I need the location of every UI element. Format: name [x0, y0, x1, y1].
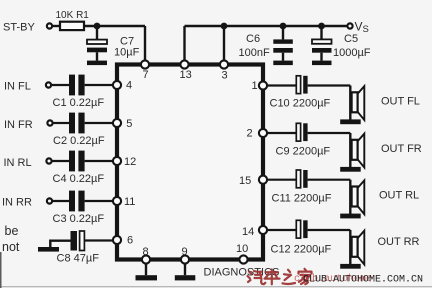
svg-text:not: not	[2, 240, 20, 254]
resistor R1	[56, 10, 90, 30]
ground (pin 8)	[136, 275, 158, 280]
svg-text:14: 14	[242, 226, 254, 238]
wire	[144, 26, 146, 65]
svg-text:12: 12	[124, 156, 136, 168]
svg-text:C6: C6	[246, 33, 260, 45]
wire pin 8 ground stub	[145, 264, 147, 275]
svg-text:OUT FL: OUT FL	[381, 96, 420, 108]
svg-text:OUT RR: OUT RR	[378, 236, 420, 248]
pin 6	[113, 235, 133, 247]
svg-text:13: 13	[180, 69, 192, 81]
ground (C7)	[87, 61, 107, 66]
wire Vs rail	[224, 25, 347, 27]
capacitor C1	[53, 75, 105, 109]
pin 1	[252, 80, 268, 92]
wire	[308, 179, 351, 181]
svg-text:8: 8	[143, 246, 149, 258]
pin 2	[247, 128, 268, 140]
wire pin 9 ground stub	[184, 264, 186, 275]
svg-text:15: 15	[239, 175, 251, 187]
svg-text:1000µF: 1000µF	[333, 47, 371, 59]
svg-text:3: 3	[222, 70, 228, 82]
svg-text:2: 2	[247, 128, 253, 140]
wire	[85, 122, 113, 124]
svg-text:C9 2200µF: C9 2200µF	[276, 146, 331, 158]
wire	[85, 84, 113, 86]
svg-text:10: 10	[236, 243, 248, 255]
pin 12	[113, 156, 136, 168]
pin 8	[142, 246, 150, 264]
watermark red chinese text (drawn strokes)	[248, 269, 312, 285]
wire OUT RL row	[267, 179, 296, 181]
pin 9	[181, 246, 189, 264]
svg-text:ST-BY: ST-BY	[3, 22, 35, 34]
svg-text:be: be	[5, 224, 19, 238]
wire OUT FR row	[267, 132, 296, 134]
svg-text:C11 2200µF: C11 2200µF	[272, 193, 332, 205]
wire	[85, 200, 113, 202]
node junction at R1/C7	[94, 23, 101, 30]
terminal Vs	[347, 20, 368, 36]
svg-text:IN RR: IN RR	[2, 197, 32, 209]
pin 7	[141, 60, 149, 81]
svg-text:V: V	[355, 20, 363, 34]
svg-text:C2 0.22µF: C2 0.22µF	[53, 135, 105, 147]
ground (C6)	[273, 61, 293, 66]
capacitor C9	[276, 123, 331, 157]
svg-text:C3 0.22µF: C3 0.22µF	[53, 213, 105, 225]
wire	[308, 229, 351, 231]
svg-text:11: 11	[124, 196, 135, 208]
ground (OUT FL speaker)	[340, 119, 361, 124]
wire pin3 riser	[223, 26, 225, 65]
wire OUT FL row	[267, 84, 296, 86]
scan border left	[0, 252, 2, 288]
capacitor C10	[270, 76, 331, 110]
ground (C8)	[38, 247, 59, 252]
node junction above C6	[280, 23, 287, 30]
svg-text:C8 47µF: C8 47µF	[57, 253, 100, 265]
capacitor C11	[272, 170, 332, 205]
capacitor C12	[271, 220, 332, 255]
terminal ST-BY	[3, 22, 52, 34]
svg-text:IN FR: IN FR	[4, 119, 33, 131]
wire pin13 riser	[183, 26, 185, 65]
svg-text:10K R1: 10K R1	[56, 10, 90, 21]
svg-text:IN FL: IN FL	[4, 81, 31, 93]
ground (OUT RL speaker)	[340, 214, 361, 219]
svg-text:OUT FR: OUT FR	[381, 143, 422, 155]
pin 4	[113, 80, 132, 92]
capacitor C5	[312, 26, 371, 61]
speaker OUT FL	[350, 86, 364, 121]
text be not	[2, 224, 20, 254]
svg-text:9: 9	[182, 246, 188, 258]
ground (OUT FR speaker)	[340, 167, 361, 172]
svg-text:100nF: 100nF	[239, 47, 270, 59]
capacitor C6	[239, 26, 293, 61]
ground (OUT RR speaker)	[340, 264, 361, 269]
wire	[52, 160, 69, 162]
svg-text:6: 6	[127, 235, 133, 247]
wire	[85, 160, 113, 162]
wire	[185, 25, 225, 27]
wire	[85, 239, 113, 241]
capacitor C3	[53, 191, 105, 225]
capacitor C7	[87, 26, 140, 61]
svg-text:C12 2200µF: C12 2200µF	[271, 244, 332, 256]
pin 11	[113, 196, 136, 208]
node junction above pin 3	[221, 23, 228, 30]
svg-text:C1 0.22µF: C1 0.22µF	[53, 97, 105, 109]
scan border bottom	[0, 286, 432, 287]
svg-text:C5: C5	[344, 33, 358, 45]
svg-text:7: 7	[143, 69, 149, 81]
capacitor C4	[53, 151, 105, 185]
wire OUT RR row	[267, 229, 296, 231]
pin 13	[180, 60, 192, 81]
svg-text:IN RL: IN RL	[4, 157, 32, 169]
pin 15	[239, 175, 267, 187]
wire	[308, 84, 351, 86]
speaker OUT RL	[350, 180, 364, 215]
svg-text:5: 5	[126, 118, 132, 130]
capacitor C2	[53, 113, 105, 147]
svg-text:4: 4	[126, 80, 132, 92]
pin 10	[236, 243, 248, 264]
wire	[84, 25, 145, 27]
svg-text:OUT RL: OUT RL	[379, 190, 419, 202]
svg-text:C4 0.22µF: C4 0.22µF	[53, 173, 105, 185]
pin 3	[220, 60, 228, 81]
ground (pin 9)	[175, 275, 196, 280]
capacitor C8	[57, 231, 100, 265]
op-amp U1 power amplifier body	[117, 65, 263, 260]
node junction above C5	[318, 23, 325, 30]
wire	[52, 84, 69, 86]
svg-text:10µF: 10µF	[114, 47, 140, 59]
svg-text:S: S	[363, 24, 369, 35]
speaker OUT FR	[350, 133, 364, 168]
ground (C5)	[312, 61, 332, 66]
terminal IN RL	[4, 157, 52, 169]
svg-text:1: 1	[252, 80, 258, 92]
wire	[50, 241, 70, 247]
wire	[53, 122, 69, 124]
pin 5	[113, 118, 133, 130]
wire	[308, 132, 351, 134]
wire	[53, 200, 69, 202]
pin 14	[242, 226, 267, 238]
svg-text:CLUB.AUTOHOME.COM.CN: CLUB.AUTOHOME.COM.CN	[303, 274, 423, 285]
svg-text:C10 2200µF: C10 2200µF	[270, 98, 331, 110]
terminal IN RR	[2, 197, 52, 209]
terminal IN FL	[4, 81, 51, 93]
wire	[53, 25, 60, 27]
svg-text:C7: C7	[120, 35, 134, 47]
terminal IN FR	[4, 119, 53, 131]
speaker OUT RR	[350, 230, 364, 265]
